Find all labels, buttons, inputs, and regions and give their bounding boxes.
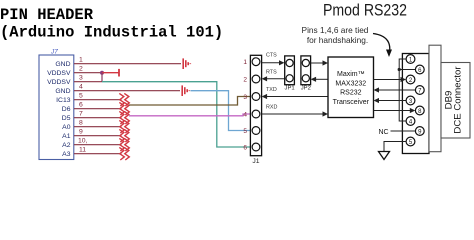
svg-text:D5: D5	[62, 115, 71, 122]
net label TXD	[266, 87, 277, 93]
ratsnest rip zigzag A1	[119, 129, 129, 142]
svg-text:10,: 10,	[78, 138, 88, 145]
wire blue GND to J1 pin5	[191, 91, 253, 131]
net label RTS	[266, 70, 277, 76]
svg-text:9: 9	[79, 129, 83, 136]
svg-text:NC: NC	[379, 129, 389, 136]
wire DB9 pin7 to maxim	[374, 87, 416, 92]
DB9 pin 3	[406, 96, 415, 105]
ratsnest rip zigzag D5	[119, 111, 129, 124]
note Pins 1,4,6 are tied for handshaking	[302, 25, 369, 45]
svg-text:A0: A0	[62, 124, 71, 131]
wire pin1 GND	[74, 63, 181, 65]
J1 label	[252, 158, 259, 165]
wire pin2 VDDSV	[74, 72, 102, 74]
svg-text:A2: A2	[62, 142, 71, 149]
svg-text:3: 3	[243, 94, 247, 101]
wire TXD maxim to J1 pin3	[262, 94, 328, 99]
wire magenta D5 to J1 pin4 RXD	[129, 114, 252, 116]
wire VDDSV vertical jog	[101, 73, 103, 82]
svg-text:VDDSV: VDDSV	[47, 79, 71, 86]
JP1 pins	[286, 59, 293, 82]
wire pin9 A1	[74, 135, 122, 137]
svg-text:3: 3	[79, 75, 83, 82]
svg-text:MAX3232: MAX3232	[335, 80, 366, 87]
net label RXD	[266, 105, 277, 111]
junction node tie pin6	[398, 68, 401, 71]
DB9 connector body	[441, 63, 470, 139]
svg-text:1: 1	[243, 59, 247, 66]
svg-text:4: 4	[243, 111, 247, 118]
DB9 pin 6	[415, 65, 424, 74]
svg-text:5: 5	[243, 128, 247, 135]
ratsnest rip zigzag IC13	[119, 93, 129, 106]
wire NC to DB9 pin9	[391, 130, 416, 132]
svg-text:GND: GND	[55, 88, 70, 95]
title (Arduino Industrial 101)	[0, 24, 223, 42]
J7 pin numbers 1-11	[78, 57, 88, 154]
DB9 pin 7	[415, 86, 424, 95]
svg-text:JP1: JP1	[285, 85, 295, 91]
handshake tie wire pins 1,4,6	[399, 59, 415, 121]
wire JP2 top to maxim	[311, 60, 328, 65]
svg-text:11: 11	[79, 147, 86, 154]
J1 pin circles	[252, 58, 260, 151]
svg-text:1: 1	[79, 57, 83, 64]
connector J7 label	[50, 49, 58, 56]
wire maxim to JP2 bottom	[311, 77, 328, 82]
svg-text:A1: A1	[62, 133, 71, 140]
JP2 label	[301, 85, 311, 91]
wire pin10 A2	[74, 144, 122, 146]
net label CTS	[266, 53, 277, 59]
svg-text:GND: GND	[55, 61, 70, 68]
svg-text:RTS: RTS	[266, 70, 277, 76]
ratsnest rip zigzag D6	[119, 102, 129, 115]
wire maxim to DB9 pin8	[374, 108, 416, 113]
ratsnest rip zigzag A3	[119, 147, 129, 160]
wire DB9 pin5 to ground	[384, 142, 406, 152]
svg-text:DCE Connector: DCE Connector	[453, 66, 464, 134]
svg-text:Pmod RS232: Pmod RS232	[323, 1, 407, 20]
wire pin7 D5	[74, 117, 122, 119]
svg-text:TXD: TXD	[266, 87, 277, 93]
svg-text:RXD: RXD	[266, 105, 277, 111]
svg-text:2: 2	[243, 76, 247, 83]
DB9 pin 1	[406, 55, 415, 64]
wire pin4 GND	[74, 90, 180, 92]
svg-text:CTS: CTS	[266, 53, 277, 59]
wire RXD J1 pin4 to maxim	[262, 111, 328, 116]
DB9 body label	[443, 66, 463, 134]
ground symbol GND pin1	[183, 58, 190, 69]
wire pin5 IC13	[74, 99, 122, 101]
label NC	[379, 129, 389, 136]
svg-text:7: 7	[79, 111, 83, 118]
wire pin3 VDDSV stub	[74, 81, 102, 83]
JP1 label	[285, 85, 295, 91]
svg-text:8: 8	[79, 120, 83, 127]
wire DB9 pin3 to maxim	[374, 98, 407, 103]
ratsnest rip zigzag A0	[119, 120, 129, 133]
svg-text:J1: J1	[252, 158, 259, 164]
JP2 pins	[302, 59, 309, 82]
ground symbol DB9 pin5	[379, 152, 390, 160]
svg-text:2: 2	[79, 66, 83, 73]
note arrow to pin 1	[373, 34, 392, 58]
DB9 pin field body	[402, 54, 429, 154]
svg-text:6: 6	[243, 144, 247, 151]
power bar symbol	[102, 69, 119, 77]
DB9 pin 2	[406, 75, 415, 84]
svg-text:Transceiver: Transceiver	[333, 99, 370, 106]
DB9 connector shell flange	[429, 45, 441, 152]
DB9 pin 4	[406, 117, 415, 126]
ratsnest rip zigzag A2	[119, 138, 129, 151]
svg-text:RS232: RS232	[340, 90, 362, 97]
svg-text:IC13: IC13	[56, 97, 71, 104]
wire brown D6 to J1 pin3 TXD	[129, 97, 252, 106]
svg-text:JP2: JP2	[301, 85, 311, 91]
wire pin6 D6	[74, 108, 122, 110]
ground symbol GND pin4	[182, 85, 189, 96]
svg-text:Maxim™: Maxim™	[337, 71, 365, 78]
title Pmod RS232	[323, 1, 407, 20]
connector J1 body	[250, 55, 261, 155]
svg-text:PIN HEADER: PIN HEADER	[0, 6, 94, 24]
DB9 pin 5	[406, 137, 415, 146]
U1 text	[333, 71, 370, 106]
DB9 pin 8	[415, 106, 424, 115]
svg-text:6: 6	[79, 102, 83, 109]
wire maxim to DB9 pin2	[374, 77, 407, 82]
svg-text:D6: D6	[62, 106, 71, 113]
jumper JP1 body	[285, 56, 295, 85]
wire RTS J1 pin2 to JP1	[262, 76, 286, 81]
svg-text:Pins 1,4,6 are tied: Pins 1,4,6 are tied	[302, 25, 369, 35]
junction node VDDSV	[100, 71, 104, 75]
wire teal VDDSV to J1 pin6	[102, 82, 252, 147]
svg-text:A3: A3	[62, 151, 71, 158]
wire pin8 A0	[74, 126, 122, 128]
DB9 pin 9	[415, 127, 424, 136]
svg-text:4: 4	[79, 84, 83, 91]
jumper JP2 body	[301, 56, 311, 85]
connector J7 body	[39, 55, 74, 160]
J1 pin numbers	[243, 59, 247, 151]
wire CTS J1 pin1 to JP1	[262, 60, 285, 65]
IC U1 Maxim MAX3232 body	[328, 57, 374, 118]
svg-text:for handshaking.: for handshaking.	[307, 35, 368, 45]
title PIN HEADER	[0, 6, 94, 24]
J7 pin labels	[47, 61, 71, 158]
svg-text:VDDSV: VDDSV	[47, 70, 71, 77]
svg-text:5: 5	[79, 93, 83, 100]
wire pin11 A3	[74, 153, 122, 155]
svg-text:(Arduino Industrial 101): (Arduino Industrial 101)	[0, 24, 223, 42]
